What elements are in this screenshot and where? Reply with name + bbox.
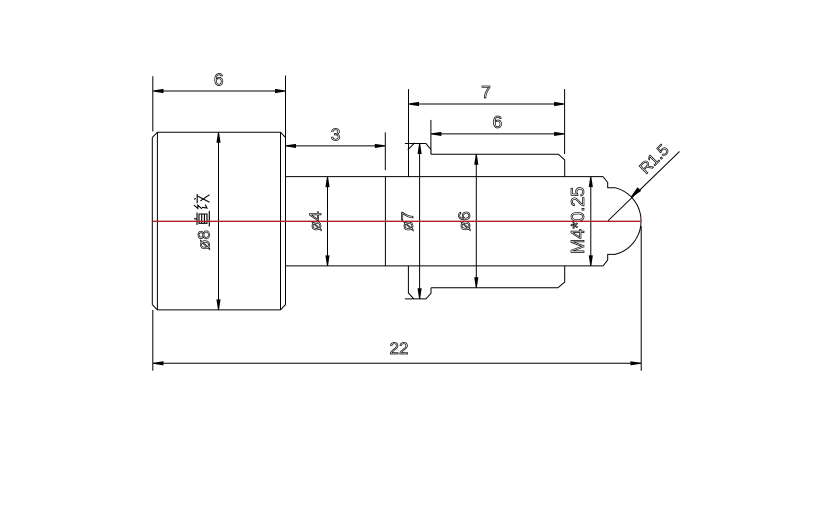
svg-text:3: 3 — [331, 124, 341, 144]
red centerline — [153, 220, 642, 222]
dimension 22 (overall length) — [153, 226, 641, 371]
dimension ø6 (vertical) — [455, 154, 478, 288]
knurled head outline (ø8 section) — [152, 132, 285, 310]
dimension 3 (neck length) — [286, 124, 386, 170]
svg-text:22: 22 — [390, 339, 409, 358]
dimension ø8 with knurl note (vertical, in head) — [194, 132, 220, 310]
svg-text:6: 6 — [214, 70, 224, 90]
dimension 7 (flange+ø6 length) — [409, 82, 565, 177]
M4 thread relief groove and spherical tip R1.5 — [603, 177, 641, 266]
radius leader R1.5 — [608, 142, 680, 221]
neck division edge — [384, 177, 386, 266]
dimension 6 (ø6 length) — [431, 112, 565, 154]
svg-text:M4*0.25: M4*0.25 — [568, 187, 588, 254]
svg-text:7: 7 — [481, 82, 491, 102]
ø6 section outline — [431, 154, 565, 288]
svg-text:6: 6 — [493, 112, 503, 132]
dimension ø4 (vertical, neck) — [306, 177, 329, 266]
shaft body top/bottom silhouette lines (ø4 neck through M4 section) — [286, 177, 604, 266]
flange (ø7) outline — [405, 143, 431, 299]
hanzi 直 — [194, 211, 209, 227]
dimension 6 (head length) — [153, 70, 286, 305]
hanzi 纹 — [194, 194, 210, 209]
dimension M4*0.25 (vertical, thread) — [568, 177, 592, 266]
svg-text:ø8: ø8 — [195, 230, 214, 250]
dimension ø7 (vertical, flange) — [398, 144, 421, 299]
